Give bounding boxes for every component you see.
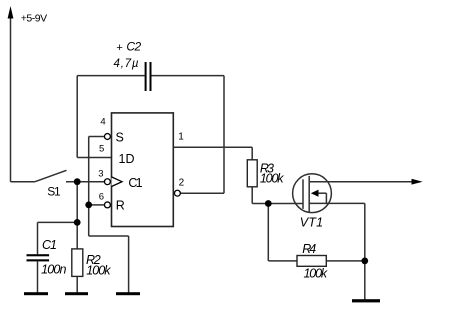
svg-text:5: 5	[99, 143, 104, 154]
svg-text:R4: R4	[302, 242, 316, 256]
svg-text:100k: 100k	[86, 264, 111, 278]
svg-text:+: +	[116, 42, 122, 54]
svg-text:C1: C1	[42, 238, 57, 252]
svg-text:6: 6	[99, 192, 104, 203]
svg-text:+5-9V: +5-9V	[21, 12, 47, 24]
svg-text:C1: C1	[128, 176, 142, 190]
svg-text:2: 2	[179, 178, 185, 189]
svg-text:C2: C2	[126, 40, 141, 54]
svg-text:4,7µ: 4,7µ	[114, 58, 139, 70]
svg-text:100k: 100k	[260, 172, 284, 186]
svg-text:100k: 100k	[304, 266, 328, 280]
svg-text:VT1: VT1	[300, 215, 323, 229]
svg-text:100n: 100n	[41, 263, 66, 277]
svg-text:1D: 1D	[119, 152, 135, 166]
svg-text:3: 3	[98, 169, 103, 180]
svg-text:R: R	[116, 199, 125, 213]
svg-text:1: 1	[178, 131, 184, 142]
svg-text:S1: S1	[47, 185, 61, 199]
svg-text:4: 4	[100, 116, 105, 127]
svg-text:S: S	[116, 131, 124, 145]
